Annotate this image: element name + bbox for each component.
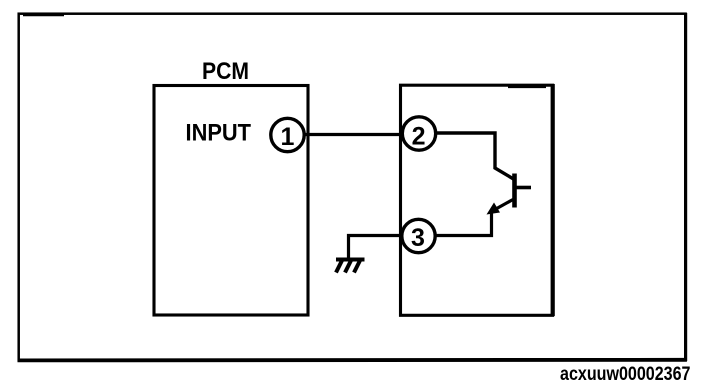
chassis ground symbol xyxy=(336,260,365,273)
transistor Q1 emitter with arrow xyxy=(487,200,514,215)
wire: pin 2 to transistor collector xyxy=(435,133,514,179)
pin 2 xyxy=(402,117,435,151)
transistor Q1 base lead xyxy=(516,186,531,190)
pin 3 xyxy=(402,219,435,252)
transistor Q1 base bar xyxy=(512,174,517,208)
svg-text:2: 2 xyxy=(412,122,426,150)
svg-text:PCM: PCM xyxy=(202,58,249,85)
svg-text:3: 3 xyxy=(411,224,425,252)
svg-text:acxuuw00002367: acxuuw00002367 xyxy=(560,363,691,385)
svg-text:1: 1 xyxy=(281,123,295,151)
wire: pin 1 to pin 2 xyxy=(304,133,403,136)
wire: pin 3 to ground xyxy=(349,236,401,259)
component module box xyxy=(401,84,553,316)
PCM module box xyxy=(154,86,308,316)
svg-text:INPUT: INPUT xyxy=(186,120,252,147)
wire: transistor emitter to pin 3 xyxy=(435,210,492,236)
pin 1 xyxy=(271,118,304,151)
